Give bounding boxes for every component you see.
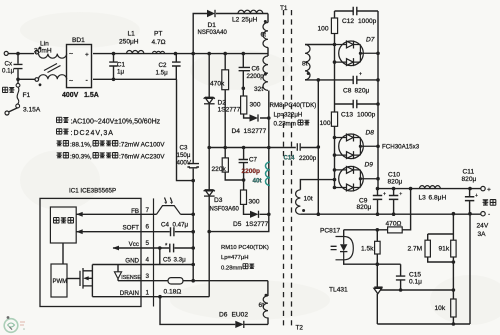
svg-text:32t: 32t	[254, 86, 263, 93]
svg-text:D2: D2	[218, 100, 227, 107]
svg-text:SOFT: SOFT	[123, 225, 140, 232]
svg-text:~: ~	[69, 78, 73, 85]
resistor 470k	[222, 70, 229, 90]
svg-text:T1: T1	[280, 5, 288, 12]
capacitor C11 plates	[465, 197, 474, 201]
wire D2 D3 clamp column	[208, 54, 210, 297]
svg-text:4.7Ω: 4.7Ω	[152, 39, 166, 46]
wire divider top	[428, 214, 454, 241]
pin labels	[120, 208, 142, 297]
svg-text:~: ~	[69, 51, 73, 58]
svg-text:220k: 220k	[212, 166, 227, 173]
svg-text:0.23mm: 0.23mm	[274, 121, 296, 128]
wire gate	[67, 278, 80, 280]
svg-text:Vcc: Vcc	[129, 241, 139, 248]
svg-text:DRAIN: DRAIN	[120, 290, 139, 297]
wire D9 entry	[300, 180, 334, 190]
svg-text::90.3%,: :90.3%,	[70, 154, 92, 161]
bridge BD1 box	[67, 45, 92, 88]
svg-text::88.1%,: :88.1%,	[70, 142, 92, 149]
wire T1 winding junction	[267, 48, 269, 57]
40t teal annotation winding	[266, 162, 271, 185]
svg-text:C15: C15	[409, 272, 421, 279]
TL431	[374, 286, 382, 288]
fuse F1 leads	[9, 79, 18, 112]
svg-text:300: 300	[249, 199, 260, 206]
PWM box	[51, 264, 67, 297]
wire secondary gnd bottom rail	[377, 214, 470, 324]
svg-text:+: +	[399, 192, 402, 198]
svg-text:7: 7	[145, 207, 149, 214]
svg-text:100: 100	[318, 26, 329, 33]
svg-text:820μ: 820μ	[462, 176, 477, 183]
Vcc arrow	[113, 246, 120, 251]
svg-text:C4: C4	[161, 222, 169, 229]
common mode choke Lin	[35, 50, 67, 81]
svg-text:10k: 10k	[435, 305, 446, 312]
wire TL431 cathode anode	[376, 264, 378, 324]
svg-text:RM10 PC40(TDK): RM10 PC40(TDK)	[221, 245, 269, 251]
svg-text:C12: C12	[342, 18, 354, 25]
T2 6t winding	[263, 296, 268, 318]
svg-text:+: +	[487, 187, 491, 194]
svg-text:3A: 3A	[478, 231, 487, 238]
svg-text:C8: C8	[343, 88, 352, 95]
svg-text:2.7M: 2.7M	[408, 246, 423, 253]
svg-text:Lp=477μH: Lp=477μH	[221, 255, 248, 261]
diode D5	[250, 211, 259, 218]
transformer core dashed lines	[284, 10, 292, 326]
svg-text:820μ: 820μ	[357, 204, 372, 211]
wire C15 branch	[400, 264, 402, 290]
watermark smudge bottom left	[4, 316, 25, 332]
svg-text:D9: D9	[365, 162, 374, 169]
svg-text:T2: T2	[296, 325, 304, 332]
wire SOFT row	[76, 231, 193, 233]
capacitor C9 plates	[373, 196, 382, 200]
svg-text::AC100~240V±10%,50/60Hz: :AC100~240V±10%,50/60Hz	[71, 119, 161, 126]
svg-text:C5: C5	[163, 257, 171, 264]
resistor 91k	[451, 240, 456, 257]
svg-text:TL431: TL431	[329, 287, 348, 294]
svg-text:L3: L3	[419, 195, 427, 202]
wire top rail BD1 to transformer	[93, 53, 268, 55]
wire D1 clamp branch	[193, 14, 268, 54]
wire primary gnd bus	[192, 54, 194, 281]
svg-text:2200p: 2200p	[299, 155, 317, 162]
svg-text:250μH: 250μH	[119, 39, 139, 46]
opto led	[343, 237, 345, 260]
wire 1p5k branch	[376, 230, 378, 264]
svg-text:BD1: BD1	[72, 37, 85, 44]
svg-text:1μ: 1μ	[117, 69, 124, 76]
wire 32t bottom vertical bus	[209, 91, 269, 232]
svg-text:Cx: Cx	[5, 61, 13, 68]
svg-text:150μ: 150μ	[177, 152, 191, 159]
resistor 1.5k	[375, 241, 381, 254]
svg-text:F1: F1	[23, 92, 31, 99]
svg-text:-: -	[488, 211, 490, 218]
wire C7 300 D5 branch	[244, 148, 269, 215]
svg-text:C3: C3	[180, 145, 188, 152]
IC1 box	[40, 198, 141, 306]
wire top AC rail	[8, 53, 34, 55]
wire C6 300 D4 snubber	[243, 54, 268, 118]
svg-text:6.8μH: 6.8μH	[429, 195, 447, 202]
svg-text:0.47μ: 0.47μ	[173, 222, 189, 229]
wire line A snubber rail	[209, 147, 318, 149]
T1 6t winding	[263, 23, 268, 48]
pin numbers	[145, 207, 149, 297]
svg-text:L2: L2	[232, 17, 240, 24]
resistor 300 lower	[241, 190, 247, 204]
T1 32t winding	[263, 56, 268, 90]
svg-text:C7: C7	[249, 157, 257, 164]
resistor 100 lower	[331, 112, 337, 126]
svg-text::DC24V,3A: :DC24V,3A	[71, 130, 114, 137]
capacitor C8 plates	[353, 76, 357, 84]
wire minus rail	[300, 213, 480, 215]
svg-text:0.18Ω: 0.18Ω	[164, 289, 182, 296]
svg-text:4: 4	[145, 257, 149, 264]
control block box	[50, 207, 76, 243]
wire C8 row	[305, 79, 378, 81]
svg-text:3: 3	[145, 273, 149, 280]
svg-text:400V: 400V	[62, 92, 79, 99]
inductor L1	[127, 51, 144, 54]
mosfet arrow	[83, 276, 89, 280]
wire isense tap	[117, 265, 119, 281]
svg-text:3.15A: 3.15A	[23, 107, 41, 114]
svg-text:D8: D8	[366, 130, 375, 137]
wire 470 feedback branch	[344, 189, 411, 237]
inductor L2	[238, 10, 263, 13]
mosfet Q internal	[80, 268, 92, 289]
svg-text:NSF03A60: NSF03A60	[210, 207, 240, 213]
svg-text:C10: C10	[388, 172, 400, 179]
resistor 0.18	[168, 278, 183, 284]
opto light marks	[331, 246, 337, 249]
svg-text:EU02: EU02	[232, 312, 249, 319]
capacitor C2 leads	[175, 54, 177, 80]
svg-text:300: 300	[250, 102, 261, 109]
inductor L3	[420, 186, 441, 189]
capacitor C7 plates	[239, 160, 248, 163]
capacitor C1 plates	[109, 62, 118, 66]
svg-text:1000p: 1000p	[357, 112, 376, 119]
wire 8t top to D7	[305, 44, 335, 46]
svg-text:2200p: 2200p	[247, 73, 265, 80]
svg-text:6t: 6t	[261, 32, 267, 39]
svg-text:3.3μ: 3.3μ	[174, 257, 187, 264]
wire DRAIN row	[92, 296, 209, 298]
capacitor C10 plates	[389, 196, 398, 200]
svg-text:1: 1	[145, 290, 149, 297]
svg-text:400V: 400V	[177, 160, 192, 167]
wire bottom rail BD1 to C2	[93, 78, 177, 80]
capacitor C9 leads	[377, 189, 379, 215]
svg-text:0.1μ: 0.1μ	[2, 68, 15, 75]
capacitor C15 plates	[396, 276, 405, 280]
capacitor C1 leads	[113, 54, 115, 80]
spec text line4	[57, 153, 62, 158]
resistor 470	[388, 227, 403, 233]
diode D1	[207, 10, 215, 17]
spec text line2	[57, 129, 62, 134]
phototransistor on FB line	[157, 198, 181, 215]
svg-text::72mW AC100V: :72mW AC100V	[119, 142, 165, 149]
svg-text:820μ: 820μ	[388, 179, 403, 186]
svg-text:5: 5	[145, 240, 149, 247]
diode D4	[250, 114, 259, 121]
capacitor C3 plates	[187, 164, 199, 168]
capacitor C10 leads	[393, 189, 395, 215]
svg-text:0.1μ: 0.1μ	[409, 279, 422, 286]
svg-text:D4: D4	[232, 128, 241, 135]
output terminal minus	[481, 212, 485, 216]
svg-text:D7: D7	[366, 37, 375, 44]
svg-text:820μ: 820μ	[355, 88, 370, 95]
optocoupler PC817 box	[336, 237, 354, 260]
capacitor C11 leads	[469, 189, 471, 215]
FB arrow into control	[76, 212, 83, 217]
resistor 100 upper	[331, 18, 337, 34]
wire DC plus bus	[377, 11, 379, 189]
capacitor C12 plates	[353, 7, 357, 15]
svg-text:0.28mm: 0.28mm	[221, 266, 242, 272]
output terminal plus	[481, 186, 485, 190]
svg-text::76mW AC230V: :76mW AC230V	[119, 154, 165, 161]
capacitor Cx leads	[17, 54, 19, 80]
spec text line3	[57, 141, 62, 146]
svg-text:C13: C13	[341, 112, 353, 119]
spec text line1	[57, 117, 62, 122]
svg-text:6: 6	[145, 224, 149, 231]
capacitor C13 plates	[353, 100, 357, 108]
svg-text:25μH: 25μH	[242, 17, 258, 24]
rectifier D8	[335, 134, 379, 160]
diode D6	[235, 321, 244, 328]
svg-text:C6: C6	[252, 66, 260, 73]
svg-text:PT: PT	[154, 31, 162, 38]
wire ISENSE row	[118, 281, 268, 296]
svg-text:30mH: 30mH	[34, 47, 52, 54]
svg-text:C1: C1	[117, 62, 125, 69]
svg-text:D5: D5	[233, 221, 242, 228]
wire 470k 220k column	[225, 54, 243, 180]
svg-text:1.5k: 1.5k	[361, 246, 374, 253]
wire C2 bottom down to ground node	[177, 79, 194, 180]
resistor PT coil	[153, 51, 165, 53]
svg-text:24V: 24V	[477, 223, 489, 230]
wire mosfet source drain bus	[91, 265, 93, 297]
wire divider bottom	[428, 257, 454, 324]
svg-text:FB: FB	[131, 208, 139, 215]
svg-text:1.5μ: 1.5μ	[156, 70, 169, 77]
svg-text:6t: 6t	[259, 302, 265, 309]
svg-text:1.5A: 1.5A	[84, 92, 99, 99]
input label cjk	[3, 87, 8, 92]
choke dots	[39, 47, 42, 50]
T2 10t winding	[296, 190, 301, 215]
svg-text:470Ω: 470Ω	[386, 221, 402, 228]
svg-text:NSF03A40: NSF03A40	[198, 30, 228, 36]
capacitor C6 plates	[239, 67, 250, 70]
svg-text:40t: 40t	[253, 178, 263, 185]
svg-text:2200p: 2200p	[242, 168, 260, 175]
wire plus rail	[378, 188, 481, 190]
svg-text:1S2777: 1S2777	[246, 221, 269, 228]
svg-text:D3: D3	[214, 197, 223, 204]
svg-text:8t: 8t	[302, 61, 308, 68]
svg-text:RM8 PC40(TDK): RM8 PC40(TDK)	[270, 102, 317, 109]
svg-text:PWM: PWM	[53, 279, 68, 285]
svg-text:10t: 10t	[304, 196, 313, 203]
wire bottom AC rail	[18, 78, 35, 80]
svg-text:Lp=322μH: Lp=322μH	[274, 112, 303, 119]
capacitor C2 plates	[172, 62, 181, 66]
svg-text:L1: L1	[128, 31, 136, 38]
rectifier D7	[335, 41, 379, 67]
wire GND row	[92, 264, 193, 266]
svg-text:PC817: PC817	[320, 228, 340, 235]
capacitor Cx plates	[14, 64, 23, 68]
svg-text:+: +	[359, 72, 362, 78]
wire TL431 ref row	[380, 289, 453, 291]
wire C13 snubber row	[335, 104, 379, 188]
svg-text:1S2777: 1S2777	[218, 107, 241, 114]
IC1 pin column line	[153, 198, 155, 306]
resistor 300 upper	[241, 96, 247, 114]
capacitor C4 plates	[171, 227, 174, 236]
svg-text:100: 100	[320, 120, 331, 127]
svg-text:C11: C11	[463, 169, 475, 176]
wire opto led bottom	[344, 260, 401, 265]
wire secondary return bus	[317, 80, 319, 214]
resistor 2.7M	[425, 240, 430, 257]
wire DRAIN branch to D6	[160, 297, 268, 325]
zener D3	[204, 190, 215, 196]
isense sense triangle	[114, 272, 121, 279]
resistor 10k	[451, 299, 456, 317]
input terminal bottom	[5, 111, 9, 115]
SOFT arrow into control	[76, 229, 83, 234]
capacitor C14 plates	[297, 143, 300, 151]
zener D2	[204, 97, 215, 104]
control block cjk	[54, 218, 60, 224]
svg-text:D6: D6	[219, 312, 228, 319]
svg-text:470k: 470k	[210, 81, 225, 88]
svg-text:+: +	[475, 193, 478, 199]
wire C12 snubber row	[335, 11, 379, 112]
wire control to pwm	[62, 243, 64, 264]
fuse F1	[16, 83, 20, 108]
svg-text:D1: D1	[208, 22, 217, 29]
svg-text:-: -	[86, 78, 89, 85]
T1 8t winding	[305, 45, 310, 80]
svg-text:C2: C2	[159, 62, 167, 69]
svg-text:1S2777: 1S2777	[244, 128, 267, 135]
svg-text:1000p: 1000p	[358, 18, 377, 25]
resistor 220k	[222, 158, 228, 172]
svg-text:IC1 ICE3B5565P: IC1 ICE3B5565P	[69, 188, 116, 195]
wire FB row	[76, 213, 193, 215]
svg-text:FCH30A15x3: FCH30A15x3	[382, 144, 420, 151]
svg-text:C14: C14	[284, 156, 296, 162]
capacitor C5 plates	[170, 244, 174, 253]
svg-text:GND: GND	[125, 258, 139, 265]
svg-text:+: +	[85, 52, 89, 59]
svg-text:+: +	[383, 192, 386, 198]
input terminal top	[4, 51, 8, 55]
svg-text:91k: 91k	[439, 246, 450, 253]
svg-text:ISENSE: ISENSE	[121, 275, 141, 281]
wire Vcc row	[113, 248, 193, 265]
rectifier D9	[335, 166, 379, 192]
